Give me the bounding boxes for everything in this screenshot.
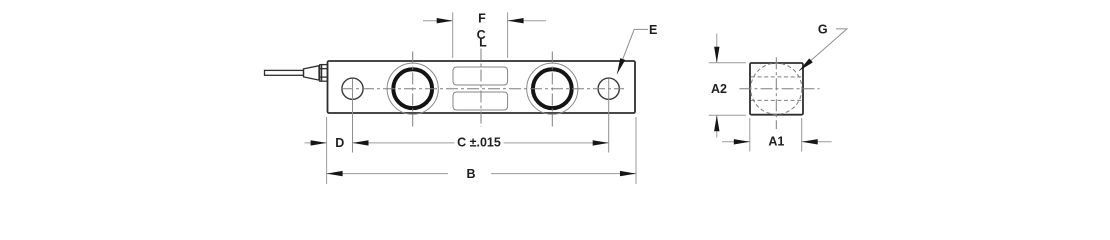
A1 outside arrow right [802,141,832,143]
connector nut [320,65,328,82]
A2 extension line top [709,62,746,64]
extension line body left edge (B and D) [326,117,328,184]
load cell body [328,61,636,113]
E leader arrowhead [614,58,625,75]
A2 outside arrow top [716,34,718,63]
A2 outside arrow bottom [716,115,718,137]
B dim arrow right [620,171,636,176]
svg-text:D: D [335,136,344,150]
top pocket [453,67,508,85]
svg-text:A1: A1 [768,134,784,148]
svg-text:F: F [478,11,486,25]
svg-text:B: B [466,167,475,181]
hidden line lower [751,99,803,101]
end view square [750,63,803,115]
end view vertical centerline [775,57,777,129]
vertical centerline big hole 2 [551,52,553,128]
big hole 1 thread ring [393,69,432,108]
G leader arrowhead [797,58,813,73]
big hole 2 thread ring [533,69,572,108]
D outside arrow [305,142,327,144]
centerline / extension line small hole right [608,79,610,153]
vertical centerline C/L [480,49,482,128]
big hole 2 counterbore [527,63,578,114]
B dimension line [327,173,448,175]
big hole 1 counterbore [387,63,438,114]
centerline / extension line small hole left [352,79,354,153]
C dim arrow left [353,140,369,145]
C dimension line [353,142,455,144]
A1 outside arrow left [722,141,750,143]
A2 extension line bottom [709,114,746,116]
svg-text:G: G [818,23,828,37]
svg-text:A2: A2 [711,82,727,96]
cable [265,70,304,75]
E leader [617,29,648,74]
cable boot (strain relief) [304,66,320,80]
svg-text:E: E [649,23,657,37]
B dim arrow left [327,171,343,176]
svg-text:C ±.015: C ±.015 [457,136,501,150]
bottom pocket [453,92,508,110]
svg-text:L: L [479,36,487,50]
hidden circle (thread hole) [751,63,802,114]
F dim arrow right [508,20,546,22]
end view horizontal centerline [740,88,820,90]
small mounting hole right [598,78,619,99]
C dim arrow right [593,140,609,145]
F extension line left [452,12,454,58]
extension line body right edge (B) [635,117,637,184]
F extension line right [507,12,509,58]
small mounting hole left [342,78,363,99]
hidden line upper [751,76,803,78]
A1 extension line left [749,118,751,152]
horizontal centerline [341,88,624,90]
F dim arrow left [423,20,453,22]
vertical centerline big hole 1 [412,52,414,128]
A1 extension line right [801,118,803,152]
G leader [799,29,847,71]
